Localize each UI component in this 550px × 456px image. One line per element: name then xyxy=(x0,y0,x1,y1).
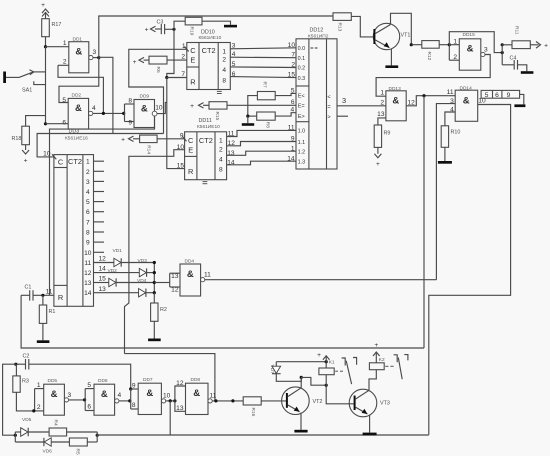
svg-text:R6: R6 xyxy=(155,67,161,73)
svg-text:E<: E< xyxy=(298,94,305,100)
svg-text:3: 3 xyxy=(484,47,488,54)
svg-text:R19: R19 xyxy=(189,27,195,36)
wire R17 bottom to node xyxy=(45,37,47,47)
svg-text:1: 1 xyxy=(453,39,457,46)
svg-text:==: == xyxy=(310,46,319,52)
IC DD11 K561IE10 counter xyxy=(177,118,227,184)
gate DD8 (pins 12,13 out 11) xyxy=(176,377,217,415)
svg-text:&: & xyxy=(392,96,399,107)
svg-text:&: & xyxy=(187,269,194,280)
svg-text:R13: R13 xyxy=(337,23,343,32)
svg-text:K2: K2 xyxy=(379,357,385,363)
wire DD4 output 11 long to right xyxy=(205,279,437,281)
wire K2 coil bottom to VT3 collector xyxy=(369,370,376,391)
switch SA1 xyxy=(3,70,45,94)
wire DD8 pin12 jog xyxy=(175,386,186,401)
wire VT2 collector to K1 coil bottom xyxy=(301,377,326,385)
svg-text:DD10: DD10 xyxy=(201,30,215,36)
svg-text:12: 12 xyxy=(84,270,92,277)
svg-text:1.1: 1.1 xyxy=(298,140,306,146)
svg-text:8: 8 xyxy=(128,98,132,105)
svg-text:VD2: VD2 xyxy=(108,268,118,274)
node C3 / R19 / reset xyxy=(172,28,175,31)
svg-text:К561ИЕ16: К561ИЕ16 xyxy=(65,136,88,142)
resistor R10 to ground xyxy=(438,126,460,164)
wire K1 coil bottom / VT3 base xyxy=(326,375,353,404)
resistor R13 xyxy=(333,13,351,32)
wire DD13 output 12 to node xyxy=(406,96,448,106)
wire POR down to DD11 R xyxy=(167,78,185,169)
svg-text:+: + xyxy=(133,59,137,66)
wire DD14 output 10 down and around to bottom bus xyxy=(429,105,511,435)
svg-text:10: 10 xyxy=(84,250,92,257)
wire C2 right to DD7 inputs xyxy=(29,364,131,389)
node K1 coil bottom xyxy=(325,384,328,387)
svg-text:2: 2 xyxy=(181,54,185,61)
wire DD10 out8 to DD12 0.3 xyxy=(230,77,296,78)
svg-text:4: 4 xyxy=(219,157,223,164)
svg-text:8: 8 xyxy=(222,77,226,84)
wire clock line to DD3 C input xyxy=(37,134,163,157)
svg-text:R14: R14 xyxy=(146,145,152,154)
capacitor C2 xyxy=(16,354,30,370)
DD11 output pin labels 11,12,13,14 xyxy=(227,131,235,167)
transistor VT2 xyxy=(282,387,323,415)
node R3 / DD5 inputs xyxy=(32,409,35,412)
svg-text:8: 8 xyxy=(86,230,90,237)
resistor R19 xyxy=(185,17,202,35)
svg-text:VT1: VT1 xyxy=(401,33,411,39)
resistor R7 (E< divider) xyxy=(248,82,296,117)
svg-text:VD6: VD6 xyxy=(43,449,53,455)
svg-text:CT2: CT2 xyxy=(199,136,213,145)
svg-text:1: 1 xyxy=(380,90,384,97)
svg-text:5: 5 xyxy=(485,92,489,99)
svg-text:0.3: 0.3 xyxy=(298,76,306,82)
wire DD11 out1 to DD12 1.0 xyxy=(227,130,296,136)
svg-text:13: 13 xyxy=(377,111,385,118)
node VD3 rail xyxy=(153,271,156,274)
svg-text:6: 6 xyxy=(495,92,499,99)
wire DD1 output up to top bus xyxy=(99,16,333,58)
svg-text:&: & xyxy=(101,389,108,400)
svg-text:13: 13 xyxy=(99,286,107,293)
gate DD2 (pins 5,6 out 4) xyxy=(62,93,96,130)
svg-text:R4: R4 xyxy=(53,420,59,426)
wire DD14 pin4 to R10 xyxy=(445,112,455,126)
svg-text:8: 8 xyxy=(219,166,223,173)
wire DD5 out to DD6 inputs xyxy=(69,399,86,401)
svg-text:9: 9 xyxy=(128,120,132,127)
svg-text:C1: C1 xyxy=(25,285,32,291)
wire DD2 pin6 from SA1 rail node xyxy=(44,122,47,125)
svg-text:R9: R9 xyxy=(384,131,391,137)
resistor R8 (E> divider) xyxy=(248,112,296,128)
svg-text:11: 11 xyxy=(84,260,91,267)
wire DD11 out2 to DD12 1.1 xyxy=(227,142,296,146)
svg-text:1: 1 xyxy=(222,48,226,55)
diode VD5 xyxy=(15,417,49,437)
wire DD3 row14 xyxy=(94,292,139,294)
svg-text:+: + xyxy=(317,352,321,359)
svg-text:11: 11 xyxy=(288,125,295,132)
wire DD6 out to DD7 inputs xyxy=(119,400,130,402)
DD12 pin number labels xyxy=(287,42,295,163)
svg-text:C2: C2 xyxy=(23,354,30,360)
svg-text:10: 10 xyxy=(155,105,163,112)
ground bar right of R19 xyxy=(224,25,237,28)
node DD7 out tap xyxy=(169,399,172,402)
svg-text:R7: R7 xyxy=(262,82,268,88)
node R7/R8 junction xyxy=(246,115,249,118)
wire DD9 output to reset line xyxy=(157,102,167,113)
svg-text:R12: R12 xyxy=(426,52,432,61)
svg-text:13: 13 xyxy=(171,273,179,280)
svg-text:15: 15 xyxy=(99,276,107,283)
DD3 output numbers 1-14 xyxy=(84,159,92,298)
wire DD15 input feedback loop from R11 node xyxy=(449,32,502,53)
svg-text:DD15: DD15 xyxy=(463,32,476,38)
gate DD7 (pins 9,8 out 10) xyxy=(131,377,171,415)
svg-text:9: 9 xyxy=(507,92,511,99)
svg-text:K1: K1 xyxy=(329,360,335,366)
svg-text:&: & xyxy=(467,44,474,55)
svg-text:DD9: DD9 xyxy=(140,94,150,100)
node R17/DD1.1/SA1 rail xyxy=(44,45,47,48)
box unused pins 5 6 9 to ground xyxy=(481,90,525,107)
wire DD8 pin13 jog xyxy=(175,401,186,411)
svg-text:&: & xyxy=(75,103,82,114)
wire link down to DD8 output node xyxy=(125,354,215,401)
svg-text:+: + xyxy=(374,342,378,349)
wire diode OR rail xyxy=(153,263,155,293)
ground below R7/R8 xyxy=(242,116,254,126)
wire DD4 output up to DD14 pin3 xyxy=(436,104,455,280)
node VD4 rail xyxy=(153,291,156,294)
wire clock net DD1-out to counters C inputs xyxy=(99,57,113,133)
svg-text:2: 2 xyxy=(380,99,384,106)
svg-text:DD5: DD5 xyxy=(48,378,58,384)
node VD network right xyxy=(96,434,99,437)
svg-text:14: 14 xyxy=(99,266,107,273)
svg-text:VT2: VT2 xyxy=(313,399,323,405)
wire R13 to VT1 base xyxy=(351,16,374,37)
resistor R12 xyxy=(411,41,449,61)
power +supply arrow above R17 xyxy=(41,2,49,19)
svg-text:R10: R10 xyxy=(451,130,461,136)
power + arrow K2 xyxy=(373,342,385,363)
svg-text:C: C xyxy=(190,46,196,55)
svg-text:+: + xyxy=(24,158,28,165)
node VD1 rail xyxy=(153,261,156,264)
wire rail to DD4 inputs xyxy=(154,273,180,287)
svg-text:+: + xyxy=(41,2,45,9)
node DD15 input xyxy=(448,43,451,46)
wire node to DD1 pin1 xyxy=(46,46,69,48)
resistor R4 xyxy=(49,420,97,437)
wire DD10 out1 to DD12 0.0 xyxy=(230,48,296,49)
svg-text:4: 4 xyxy=(92,105,96,112)
resistor R15 to + for DD12 E= xyxy=(190,102,296,121)
svg-text:R2: R2 xyxy=(160,307,167,313)
svg-text:+: + xyxy=(376,161,380,168)
svg-text:<: < xyxy=(327,94,330,100)
svg-text:>: > xyxy=(327,114,330,120)
svg-text:2: 2 xyxy=(453,54,457,61)
svg-text:VD1: VD1 xyxy=(113,248,123,254)
stub DD12 greater output xyxy=(337,115,348,117)
diode VD4 xyxy=(137,278,154,297)
svg-text:C: C xyxy=(58,158,64,167)
DD12 input cell labels xyxy=(298,46,306,166)
node DD1 output xyxy=(97,56,100,59)
svg-text:8: 8 xyxy=(132,402,136,409)
svg-text:14: 14 xyxy=(287,155,295,162)
svg-text:VD4: VD4 xyxy=(137,278,147,284)
svg-text:6: 6 xyxy=(87,403,91,410)
svg-text:2: 2 xyxy=(37,404,41,411)
wire bottom bus xyxy=(97,434,429,436)
wire RS feedback DD1.2 to DD2 output xyxy=(58,65,103,113)
diode VD2 xyxy=(108,268,155,287)
wire C3 node up to R19 xyxy=(174,21,185,29)
node DD13 output xyxy=(422,94,425,97)
wire C2 node to left border down xyxy=(3,364,16,435)
svg-text:&: & xyxy=(75,47,82,58)
svg-text:2: 2 xyxy=(222,56,226,63)
svg-text:0.0: 0.0 xyxy=(298,46,306,52)
svg-text:R1: R1 xyxy=(49,309,56,315)
svg-text:4: 4 xyxy=(86,189,90,196)
relay coil K1 xyxy=(319,362,334,375)
svg-text:13: 13 xyxy=(84,280,92,287)
svg-text:R: R xyxy=(188,167,193,176)
wire DD1 output 3 to node xyxy=(93,57,99,59)
svg-text:CT2: CT2 xyxy=(68,157,82,166)
svg-text:E=: E= xyxy=(298,104,305,110)
svg-text:7: 7 xyxy=(181,71,185,78)
svg-text:1: 1 xyxy=(291,145,295,152)
svg-text:5: 5 xyxy=(86,199,90,206)
gate DD4 (pins 13,12 out 11) xyxy=(171,259,211,297)
svg-text:9: 9 xyxy=(132,382,136,389)
svg-text:11: 11 xyxy=(46,289,53,296)
svg-text:3: 3 xyxy=(342,96,346,105)
resistor R17 xyxy=(42,19,62,37)
svg-text:10: 10 xyxy=(43,151,51,158)
wire DD1 pin2 xyxy=(58,64,69,66)
wire RS feedback DD1 out to DD2.5 xyxy=(59,58,99,103)
svg-text:1.2: 1.2 xyxy=(298,150,306,156)
DD10 output pin labels 3,4,5,6 xyxy=(232,42,236,77)
wire SA1 rail down xyxy=(45,47,47,124)
svg-text:4: 4 xyxy=(222,67,226,74)
capacitor C4 to ground xyxy=(502,56,533,74)
svg-text:7: 7 xyxy=(86,219,90,226)
svg-text:9: 9 xyxy=(291,136,295,143)
svg-text:&: & xyxy=(51,389,58,400)
node VD network left xyxy=(14,434,17,437)
svg-text:R16: R16 xyxy=(250,408,256,417)
resistor R5 xyxy=(69,438,97,455)
svg-text:2: 2 xyxy=(86,169,90,176)
wire DD8 out to R16 xyxy=(212,400,243,402)
svg-text:2: 2 xyxy=(63,59,67,66)
svg-text:0.2: 0.2 xyxy=(298,66,306,72)
resistor R3 xyxy=(13,364,34,411)
resistor R16 (VT2 base) xyxy=(243,397,286,417)
svg-text:R: R xyxy=(190,77,195,86)
svg-text:5: 5 xyxy=(291,88,295,95)
gate DD1 (pins 1,2 out 3) xyxy=(63,37,97,73)
ground VT2 emitter xyxy=(294,430,307,433)
IC DD12 K561IP2 comparator xyxy=(296,28,337,170)
svg-text:DD6: DD6 xyxy=(98,378,108,384)
resistor R9 to + arrow xyxy=(374,125,390,168)
svg-text:0.1: 0.1 xyxy=(298,56,306,62)
wire VT3 emitter to ground xyxy=(369,415,371,433)
capacitor C3 with + arrow xyxy=(145,20,174,35)
svg-text:13: 13 xyxy=(176,405,184,412)
svg-text:5: 5 xyxy=(87,382,91,389)
resistor R18 with +supply arrow down xyxy=(12,116,46,165)
svg-text:SA1: SA1 xyxy=(22,88,32,94)
transistor VT1 xyxy=(373,23,410,49)
svg-text:1.0: 1.0 xyxy=(298,129,306,135)
gate DD9 (pins 8,9 out 10) xyxy=(125,94,163,128)
svg-text:R18: R18 xyxy=(12,136,22,142)
node DD8 input tap xyxy=(173,399,176,402)
svg-text:R: R xyxy=(58,293,63,302)
svg-text:+: + xyxy=(145,27,149,34)
node VT2 collector xyxy=(300,376,303,379)
wire DD10 out4 to DD12 0.2 xyxy=(230,66,296,69)
wire DD10 out2 to DD12 0.1 xyxy=(230,56,296,59)
svg-text:4: 4 xyxy=(291,106,295,113)
svg-text:C: C xyxy=(188,136,194,145)
svg-text:+: + xyxy=(190,103,194,110)
svg-text:VD3: VD3 xyxy=(138,258,148,264)
wire VT1 emitter to ground xyxy=(390,49,392,66)
node DD8 out xyxy=(214,399,217,402)
svg-text:CT2: CT2 xyxy=(202,46,216,55)
svg-text:6: 6 xyxy=(86,209,90,216)
ground VT3 emitter xyxy=(363,433,377,436)
svg-text:E: E xyxy=(188,146,193,155)
wire DD10 R pin xyxy=(167,77,187,79)
gate DD14 (pins 11,3,4 out 10) xyxy=(447,86,486,122)
svg-text:15: 15 xyxy=(288,72,296,79)
wire clock riser to DD10 C input xyxy=(129,49,187,133)
svg-text:&: & xyxy=(193,388,200,399)
svg-text:7: 7 xyxy=(291,52,295,59)
node R11/C4 xyxy=(501,43,504,46)
svg-text:&: & xyxy=(146,388,153,399)
diode VD1 xyxy=(113,248,155,267)
wire VT2 collector up xyxy=(300,377,302,387)
wire VT2 emitter to ground xyxy=(300,413,302,430)
svg-text:К561ИЕ10: К561ИЕ10 xyxy=(197,124,220,130)
resistor R2 to ground xyxy=(148,293,167,342)
wire POR vertical C3 to DD10 R and DD11 xyxy=(167,29,174,77)
diode VD7 xyxy=(269,362,301,382)
wire DD11 out8 to DD12 1.3 xyxy=(227,161,296,165)
svg-text:DD7: DD7 xyxy=(143,377,153,383)
diode VD3 xyxy=(138,258,155,277)
svg-text:2: 2 xyxy=(219,146,223,153)
DD12 comparator output symbols xyxy=(327,94,330,120)
power + arrow K1 xyxy=(317,352,335,366)
svg-text:VT3: VT3 xyxy=(380,401,390,407)
IC DD3 K561IE16 counter xyxy=(43,129,93,307)
wire DD2 output to DD9 inputs xyxy=(93,112,125,114)
relay coil K2 xyxy=(369,363,384,370)
wire C1 left down to reset bus xyxy=(21,295,424,348)
node R16 wire xyxy=(231,399,234,402)
gate DD13 (pins 1,2,13 out 12) xyxy=(377,86,415,121)
svg-text:11: 11 xyxy=(447,89,454,96)
wire DD3 row12 xyxy=(94,272,140,274)
svg-text:E>: E> xyxy=(298,114,305,120)
gate DD15 (pins 1,2 out 3) xyxy=(449,32,488,70)
svg-text:12: 12 xyxy=(99,256,107,263)
svg-text:+: + xyxy=(544,42,548,49)
wire DD11 E input jog to reset bus xyxy=(125,150,185,354)
node R12 left xyxy=(410,43,413,46)
wire DD3 row11 xyxy=(94,262,114,264)
wire VT1 collector to R12 xyxy=(391,13,412,44)
svg-text:12: 12 xyxy=(171,287,179,294)
DD3 output pin labels 12,14,15,13 xyxy=(99,256,107,293)
svg-text:9: 9 xyxy=(86,240,90,247)
svg-text:R3: R3 xyxy=(22,379,29,385)
wire tap down to bottom bus xyxy=(169,401,171,435)
svg-text:VD5: VD5 xyxy=(22,417,32,423)
node VD2 rail xyxy=(153,281,156,284)
svg-text:6: 6 xyxy=(291,99,295,106)
svg-text:14: 14 xyxy=(84,290,92,297)
svg-text:R8: R8 xyxy=(265,122,271,128)
resistor R6 to + for DD10 E xyxy=(133,56,187,73)
resistor R11 to + output arrow xyxy=(502,26,548,49)
svg-text:R15: R15 xyxy=(214,112,220,121)
svg-text:12: 12 xyxy=(176,380,184,387)
wire DD13 out down to relay bus xyxy=(423,96,425,348)
svg-text:1: 1 xyxy=(86,159,90,166)
ground VT1 emitter xyxy=(385,65,398,68)
wire DD7 out to DD8 inputs xyxy=(166,400,175,402)
svg-text:3: 3 xyxy=(86,179,90,186)
svg-text:DD8: DD8 xyxy=(191,377,201,383)
svg-text:C3: C3 xyxy=(157,20,164,26)
svg-text:1: 1 xyxy=(63,40,67,47)
capacitor C1 xyxy=(21,285,54,301)
resistor R14 to + for DD11 C xyxy=(121,135,185,154)
svg-text:R17: R17 xyxy=(52,22,62,28)
svg-text:+: + xyxy=(121,137,125,144)
svg-text:6: 6 xyxy=(62,120,66,127)
svg-text:10: 10 xyxy=(288,42,296,49)
node C2 left xyxy=(14,363,17,366)
svg-text:DD2: DD2 xyxy=(72,93,82,99)
svg-text:1.3: 1.3 xyxy=(298,160,306,166)
node C2 to DD7 input bracket xyxy=(129,387,132,390)
svg-text:DD3: DD3 xyxy=(69,129,80,135)
svg-text:&: & xyxy=(141,104,148,115)
wire DD12 output 3 (equal) to DD13 pin2 xyxy=(337,96,386,106)
node DD10 R pin xyxy=(165,76,168,79)
gate DD6 (pins 5,6 out 4) xyxy=(85,378,121,415)
